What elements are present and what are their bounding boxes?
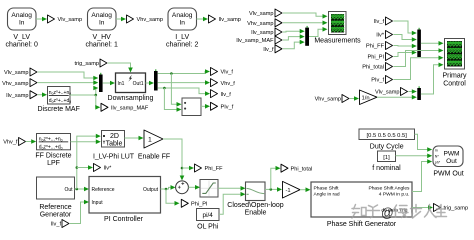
svg-text:Ilv_f: Ilv_f: [263, 47, 274, 53]
junction Vlv_f branch: [170, 72, 173, 75]
wire to Phi_total tag: [271, 168, 279, 189]
block FF Discrete LPF: [35, 134, 71, 167]
wire to Phi_FF tag: [182, 167, 193, 169]
watermark glyph zhi: [352, 205, 366, 219]
wire Ilv_f to PI Input: [70, 200, 89, 224]
wire Vlv_samp to scope port1: [283, 13, 328, 19]
svg-text:V_LV: V_LV: [13, 34, 30, 41]
watermark glyph ren: [425, 205, 437, 218]
goto tag Phi_PI: [181, 199, 208, 207]
svg-text:PWM: PWM: [443, 151, 459, 158]
svg-text:Analog: Analog: [172, 12, 193, 19]
wire Ilv* to mux1: [393, 35, 417, 42]
from tag Ilv_f bottom: [51, 220, 69, 228]
svg-text:Table: Table: [106, 141, 123, 148]
from tag Vlv_samp mid: [4, 68, 37, 76]
svg-text:Enable FF: Enable FF: [138, 154, 170, 161]
scope Measurements: [314, 12, 361, 45]
goto tag Ilv_samp_MAF: [101, 103, 149, 111]
goto tag Vlv_f: [211, 68, 234, 76]
block Closed Open-loop Enable switch: [227, 182, 284, 217]
svg-text:Vhv_f: Vhv_f: [3, 139, 18, 145]
goto tag Vhv_f: [211, 79, 236, 87]
block Analog In V_LV: [6, 8, 38, 49]
wire Ilv_f to product in2: [164, 88, 179, 110]
svg-text:-1: -1: [286, 188, 291, 194]
svg-text:PWM Out: PWM Out: [433, 171, 463, 178]
svg-text:Analog: Analog: [91, 12, 112, 19]
goto tag Ilv_samp: [209, 15, 241, 23]
svg-text:Phase Shift Generator: Phase Shift Generator: [327, 221, 397, 228]
goto tag Vhv_samp: [127, 15, 163, 23]
svg-text:V_HV: V_HV: [93, 34, 112, 41]
from tag Vlv_samp right: [375, 88, 408, 96]
svg-text:1/n: 1/n: [362, 95, 370, 101]
svg-text:trig_samp: trig_samp: [444, 206, 469, 212]
wire Ilv_samp to mux: [283, 29, 305, 34]
svg-text:Discrete MAF: Discrete MAF: [37, 106, 79, 113]
svg-text:Measurements: Measurements: [314, 38, 361, 45]
from tag PIv_f right: [371, 76, 392, 84]
svg-text:Generator: Generator: [40, 212, 72, 219]
goto tag Ilv*: [94, 164, 113, 172]
svg-text:Phi_FF: Phi_FF: [205, 166, 224, 172]
from tag Phi_FF right: [366, 42, 393, 50]
from tag Ilv_f right: [374, 17, 393, 25]
svg-text:channel: 2: channel: 2: [166, 42, 198, 49]
svg-text:Vhv_samp: Vhv_samp: [315, 97, 341, 103]
svg-text:N*: N*: [435, 155, 440, 159]
svg-text:Vlv_samp: Vlv_samp: [249, 11, 274, 17]
block Downsampling: [108, 73, 154, 102]
wire product to PIv_f: [201, 104, 210, 109]
svg-text:Ilv_samp: Ilv_samp: [251, 30, 273, 36]
svg-text:Reference: Reference: [39, 204, 71, 211]
block Duty Cycle constant: [359, 129, 415, 151]
svg-text:trig_samp: trig_samp: [74, 61, 99, 67]
svg-text:Duty Cycle: Duty Cycle: [370, 144, 404, 151]
svg-text:4 PWM in p.u.: 4 PWM in p.u.: [379, 192, 410, 198]
wire f nominal to PWM N: [396, 154, 433, 159]
block f nominal constant: [372, 151, 401, 172]
from tag trig_samp: [74, 59, 107, 67]
svg-text:OL Phi: OL Phi: [197, 224, 219, 231]
goto tag Phi_FF: [195, 164, 224, 172]
svg-text:I_LV-Phi LUT: I_LV-Phi LUT: [93, 154, 135, 161]
junction Ilv* branch: [76, 166, 79, 169]
wire PI Output to sum: [161, 185, 180, 206]
block saturation: [200, 180, 218, 198]
svg-text:Control: Control: [443, 81, 466, 88]
junction Phi_total branch: [270, 188, 273, 191]
wire saturation to switch: [218, 186, 246, 191]
svg-text:Ilv_samp: Ilv_samp: [219, 17, 241, 23]
svg-text:Ilv_f: Ilv_f: [51, 222, 62, 228]
block I_LV-Phi LUT: [93, 131, 135, 161]
svg-text:Out: Out: [64, 187, 73, 193]
wire Vhv_samp to mux4: [38, 80, 99, 85]
svg-text:Phi_total: Phi_total: [291, 167, 313, 173]
wire V_HV out: [116, 17, 126, 22]
svg-text:Phase Shift: Phase Shift: [314, 186, 340, 192]
wire sum to saturation: [188, 185, 200, 190]
block Reference Generator: [37, 177, 75, 219]
watermark glyph sheng: [435, 205, 447, 217]
block Phase Shift Generator: [311, 182, 412, 228]
wire to Ilv* tag: [77, 167, 91, 169]
gain -1: [283, 181, 301, 198]
wire demux to Vhv_f: [158, 80, 210, 85]
svg-text:ph*: ph*: [435, 160, 441, 164]
svg-text:I_LV: I_LV: [175, 34, 189, 41]
wire mux4 to Downsampling: [103, 81, 115, 86]
svg-text:LPF: LPF: [47, 160, 60, 167]
mux measurements: [305, 26, 309, 46]
svg-text:pi/4: pi/4: [203, 212, 214, 219]
svg-text:Ilv_samp_MAF: Ilv_samp_MAF: [236, 38, 274, 44]
svg-text:PIv_f: PIv_f: [221, 105, 234, 111]
watermark: [352, 205, 447, 221]
wire Vhv_f to LPF: [26, 139, 37, 144]
block PWM Out: [433, 146, 464, 178]
svg-text:Vlv_samp: Vlv_samp: [375, 90, 400, 96]
sum junction: [176, 181, 189, 194]
wire LUT to Enable FF: [125, 136, 144, 141]
svg-text:Vhv_f: Vhv_f: [221, 81, 236, 87]
wire PIv_f to scope port3: [393, 56, 443, 80]
watermark glyph huan: [394, 205, 408, 218]
from tag Ilv_f: [263, 45, 282, 53]
svg-text:channel: 0: channel: 0: [6, 42, 38, 49]
wire Ilv_samp_MAF to mux: [283, 34, 305, 40]
gain 1/n: [360, 90, 378, 105]
wire Vhv_samp to gain: [350, 96, 359, 101]
junction MAF out: [95, 94, 98, 97]
mux1: [417, 28, 421, 57]
svg-text:m: m: [435, 148, 438, 152]
block PI Controller: [89, 177, 161, 224]
svg-text:Downsampling: Downsampling: [108, 95, 154, 102]
watermark glyph at: [381, 206, 394, 220]
goto tag PIv_f: [211, 102, 234, 110]
svg-text:Ilv_samp_MAF: Ilv_samp_MAF: [111, 106, 149, 112]
svg-text:Out1: Out1: [133, 81, 144, 87]
from tag Vhv_samp right: [315, 95, 349, 103]
wire Phi_PI to mux1: [393, 50, 417, 56]
wire Ilv_f to mux: [283, 40, 305, 49]
wire V_LV out: [36, 17, 47, 22]
wire MAF to mux4 port3: [95, 88, 97, 95]
wire Ilv_f to mux1: [393, 21, 417, 35]
svg-text:Ilv_samp: Ilv_samp: [6, 93, 28, 99]
mux4 downsampling: [99, 73, 103, 92]
svg-text:Phase Shift Angles: Phase Shift Angles: [368, 186, 410, 192]
wire Phi_FF to mux1: [393, 44, 417, 49]
wire Vhv_samp to scope port2: [283, 21, 328, 26]
junction Phi_FF branch: [181, 167, 184, 170]
wire Vlv_f to product in1: [171, 74, 179, 105]
wire switch to -1 gain: [265, 166, 282, 192]
wire demux to Vlv_f: [158, 69, 210, 106]
svg-text:Reference: Reference: [92, 187, 115, 193]
svg-text:Phi_PI: Phi_PI: [191, 202, 208, 208]
goto tag trig_samp right: [434, 204, 469, 212]
wire mux to scope port3: [309, 27, 328, 37]
svg-text:Vhv_samp: Vhv_samp: [137, 17, 163, 23]
svg-text:Out: Out: [446, 158, 457, 165]
svg-text:Phi_FF: Phi_FF: [366, 44, 385, 50]
wire Duty Cycle to PWM m: [415, 134, 433, 152]
junction RefGen Out: [76, 188, 79, 191]
block Discrete MAF: [37, 87, 79, 114]
from tag Vhv_samp: [247, 19, 282, 27]
svg-text:In: In: [19, 19, 25, 26]
svg-text:Vhv_samp: Vhv_samp: [247, 21, 273, 27]
scope Primary Control: [442, 39, 467, 88]
svg-text:Phi_total: Phi_total: [362, 65, 384, 71]
svg-text:Ilv_f: Ilv_f: [374, 19, 385, 25]
from tag Ilv_samp mid: [6, 91, 37, 99]
goto tag Ilv_f mid: [211, 90, 232, 98]
from tag Phi_total right: [362, 63, 392, 71]
wire to Phi_PI tag: [166, 189, 178, 203]
wire mux2 to scope port4: [421, 63, 444, 94]
svg-text:Ilv*: Ilv*: [104, 166, 113, 172]
goto tag Phi_total: [281, 164, 312, 172]
wire trig_samp to Downsampling trigger: [108, 63, 133, 73]
svg-text:Primary: Primary: [442, 73, 467, 80]
svg-text:Ilv*: Ilv*: [376, 33, 385, 39]
block pi/4 OL Phi: [197, 209, 220, 231]
gain Enable FF: [138, 130, 170, 161]
svg-text:[0.5 0.5 0.5 0.5]: [0.5 0.5 0.5 0.5]: [367, 133, 408, 139]
svg-text:PI Controller: PI Controller: [104, 216, 144, 223]
svg-text:PIv_f: PIv_f: [371, 78, 384, 84]
svg-text:FF Discrete: FF Discrete: [35, 152, 71, 159]
wire Phi_total to scope port2: [393, 48, 443, 66]
svg-text:Vhv_samp: Vhv_samp: [2, 81, 28, 87]
mux2: [417, 86, 421, 100]
block Analog In I_LV: [166, 8, 198, 49]
wire Ilv_samp to MAF: [38, 92, 47, 97]
wire Downsampling to demux: [146, 81, 155, 86]
wire LPF to LUT: [71, 139, 101, 144]
svg-text:channel: 1: channel: 1: [86, 42, 118, 49]
svg-text:Vlv_f: Vlv_f: [221, 70, 234, 76]
wire pi/4 to switch: [219, 192, 246, 214]
junction Phi_PI branch: [165, 188, 168, 191]
wire PSG out1 to PWM ph: [412, 159, 432, 191]
svg-text:2D: 2D: [110, 133, 119, 140]
watermark glyph hu: [367, 205, 380, 218]
wire MAF to Ilv_samp_MAF tag: [96, 95, 99, 107]
svg-text:In: In: [99, 19, 105, 26]
wire Vlv_samp to mux2: [408, 89, 417, 94]
svg-text:Vlv_samp: Vlv_samp: [58, 17, 83, 23]
svg-text:Ilv_f: Ilv_f: [221, 92, 232, 98]
from tag Ilv_samp: [251, 28, 282, 36]
from tag Phi_PI right: [368, 53, 393, 61]
svg-text:Input: Input: [92, 200, 104, 206]
wire PSG out2 to trig_samp: [412, 205, 433, 210]
svg-text:In1: In1: [118, 81, 125, 87]
from tag Vlv_samp: [249, 9, 282, 17]
svg-text:@: @: [381, 206, 394, 220]
wire gain to mux2: [377, 95, 417, 100]
svg-text:In: In: [179, 19, 185, 26]
svg-text:Output: Output: [143, 187, 159, 193]
wire RefGen Out to PI Reference: [75, 134, 101, 192]
from tag Ilv_samp_MAF: [236, 36, 282, 44]
svg-text:[1]: [1]: [383, 155, 390, 161]
demux5: [154, 69, 158, 90]
svg-text:Enable: Enable: [245, 210, 267, 217]
goto tag Vlv_samp: [48, 15, 83, 23]
wire Vlv_samp to mux4: [38, 72, 99, 80]
svg-text:Angle in rad: Angle in rad: [314, 192, 340, 198]
from tag Vhv_samp mid: [2, 79, 37, 87]
wire -1 to PSG: [300, 187, 311, 192]
wire I_LV out: [197, 17, 209, 22]
wire RefGen Out to LUT u1: [77, 136, 98, 189]
wire MAF out: [70, 86, 100, 110]
wire Enable FF to sum: [163, 139, 194, 181]
svg-text:1: 1: [148, 137, 152, 144]
svg-text:Vlv_samp: Vlv_samp: [4, 70, 29, 76]
svg-text:f nominal: f nominal: [372, 165, 401, 172]
wire mux1 to scope port1: [421, 41, 444, 46]
block product: [182, 98, 201, 116]
wire demux to Ilv_f: [158, 87, 210, 112]
block Analog In V_HV: [86, 8, 118, 49]
svg-text:Analog: Analog: [11, 12, 32, 19]
svg-text:Closed\Open-loop: Closed\Open-loop: [227, 202, 284, 209]
from tag Vhv_f: [3, 138, 25, 146]
watermark glyph bu: [411, 205, 422, 219]
junction Ilv_f branch: [163, 87, 166, 90]
svg-text:Phi_PI: Phi_PI: [368, 55, 385, 61]
from tag Ilv*: [376, 31, 392, 39]
